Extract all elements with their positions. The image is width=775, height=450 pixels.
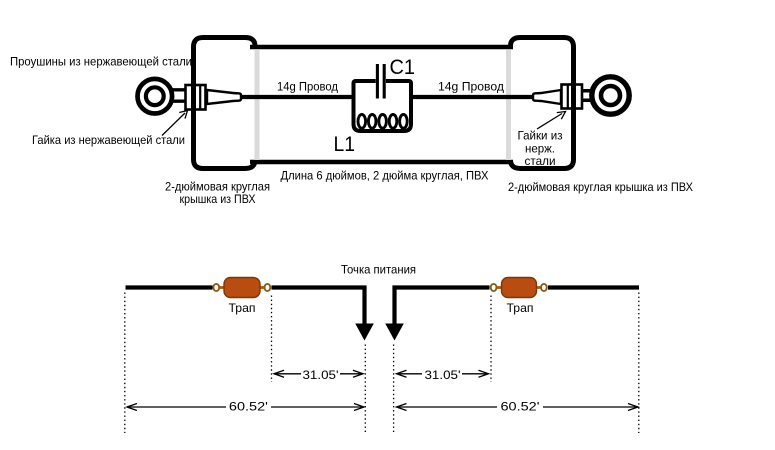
PVC tube body top edge	[250, 45, 513, 50]
nut left inner facet line	[199, 85, 201, 110]
dotted extension line right trap	[490, 296, 492, 383]
dotted extension line center left	[364, 345, 366, 434]
dotted extension line far right	[638, 293, 640, 434]
svg-text:C1: C1	[390, 55, 416, 79]
dimension 60.52 right line	[397, 406, 639, 408]
svg-text:крышка из ПВХ: крышка из ПВХ	[180, 192, 256, 206]
eyebolt ring inner left	[146, 87, 164, 105]
svg-text:Длина 6 дюймов, 2 дюйма кругла: Длина 6 дюймов, 2 дюйма круглая, ПВХ	[281, 169, 489, 183]
capacitor C1 plate right	[383, 64, 386, 99]
dimension 31.05 right line	[397, 373, 489, 375]
LC tank box outline	[354, 81, 412, 131]
feed arrowhead left	[355, 324, 374, 341]
antenna wire left inner	[272, 288, 365, 328]
trap left bead right	[265, 284, 271, 291]
eyebolt shaft left	[207, 90, 241, 104]
nut left (stainless)	[186, 85, 206, 110]
nut right inner facet line	[567, 85, 569, 109]
tube end seam left (gray)	[255, 50, 260, 160]
callout arrow left	[162, 113, 185, 136]
dotted extension line far left	[124, 293, 126, 434]
svg-text:Трап: Трап	[229, 301, 256, 315]
trap left lead stubs	[217, 286, 227, 289]
svg-text:2-дюймовая круглая крышка из П: 2-дюймовая круглая крышка из ПВХ	[508, 180, 693, 194]
dimension 31.05 left line	[274, 373, 363, 375]
eyebolt ring outer right	[592, 77, 629, 114]
svg-text:60.52': 60.52'	[501, 400, 540, 414]
svg-text:14g Провод: 14g Провод	[277, 80, 338, 94]
svg-text:стали: стали	[525, 154, 556, 168]
eyebolt ring outer left	[138, 79, 173, 114]
svg-text:31.05': 31.05'	[303, 368, 339, 382]
nuts right (stainless)	[562, 85, 583, 109]
dimension 60.52 left line	[127, 406, 364, 408]
svg-text:Проушины из нержавеющей стали: Проушины из нержавеющей стали	[10, 55, 192, 69]
callout arrow right	[537, 114, 562, 130]
inductor L1 coil loop 1	[358, 114, 366, 128]
svg-text:L1: L1	[334, 132, 356, 156]
trap right body	[502, 278, 537, 298]
wire left segment (14g)	[238, 95, 354, 99]
antenna wire right inner	[395, 288, 490, 328]
svg-text:14g Провод: 14g Провод	[438, 80, 504, 94]
capacitor C1 plate left	[376, 64, 379, 99]
inductor L1 coil loop 4	[389, 114, 397, 128]
svg-text:60.52': 60.52'	[229, 400, 268, 414]
inductor L1 coil loop 3	[379, 114, 387, 128]
trap right bead right	[541, 284, 547, 291]
eyebolt ring inner right	[601, 86, 620, 105]
dotted extension line left trap	[271, 296, 273, 383]
eyebolt shaft right	[533, 90, 561, 104]
eyebolt neck right	[581, 91, 592, 101]
PVC end cap left	[194, 38, 256, 169]
trap left body	[224, 278, 260, 298]
antenna wire right half	[548, 285, 639, 289]
trap right lead stubs	[494, 286, 503, 289]
dotted extension line center right	[393, 345, 395, 434]
PVC end cap right	[511, 38, 574, 169]
feed arrowhead right	[385, 324, 404, 341]
trap right bead left	[491, 284, 497, 291]
eyebolt neck left	[172, 90, 187, 101]
inductor L1 coil loop 5	[400, 114, 408, 128]
wire right segment (14g)	[411, 95, 536, 99]
inductor L1 coil loop 2	[368, 114, 376, 128]
tube end seam right (gray)	[506, 50, 511, 160]
antenna wire left half	[126, 285, 213, 289]
trap left bead left	[213, 284, 219, 291]
svg-text:Трап: Трап	[507, 301, 534, 315]
PVC tube body bottom edge	[250, 160, 513, 165]
svg-text:Точка питания: Точка питания	[341, 263, 416, 277]
svg-text:31.05': 31.05'	[425, 368, 461, 382]
